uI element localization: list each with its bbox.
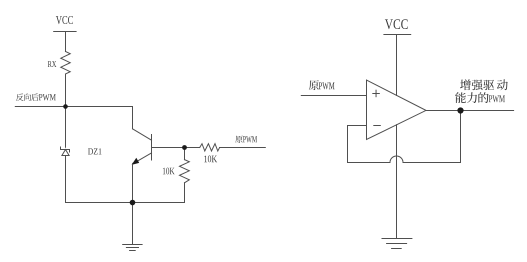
- wire output node down to feedback: [460, 111, 462, 163]
- wire RX bottom to node A: [65, 74, 67, 107]
- transistor Q1: emitter diagonal: [133, 153, 151, 164]
- wire emitter down to ground rail: [132, 163, 134, 202]
- wire output stub to 反向后PWM terminal: [15, 106, 65, 108]
- label 10K (series resistor): [204, 156, 217, 163]
- node A junction dot: [63, 104, 68, 109]
- label 反向后PWM: [16, 93, 56, 101]
- wire corner down to transistor collector: [132, 107, 134, 129]
- transistor Q1: emitter arrowhead: [132, 158, 140, 165]
- power symbol VCC (left): bar: [54, 31, 76, 33]
- wire DZ1 anode to ground rail: [65, 156, 67, 203]
- op-amp U1 pin + (non-inverting input) mark: [373, 90, 380, 97]
- label VCC (right): [385, 19, 408, 29]
- label VCC (left): [56, 16, 73, 24]
- wire VCC bar to op-amp V+ pin: [396, 35, 398, 96]
- wire ground rail (bottom horizontal): [66, 202, 185, 204]
- resistor 10K series (horizontal zigzag): [200, 144, 220, 151]
- wire feedback up to - input: [348, 126, 367, 163]
- label 10K (pulldown resistor): [163, 168, 175, 175]
- wire node A to collector corner: [66, 106, 133, 108]
- ground symbol (left): [123, 245, 142, 251]
- wire op-amp output to terminal: [426, 110, 514, 112]
- label 原PWM (right input): [309, 80, 335, 90]
- wire node A down to zener DZ1: [65, 107, 67, 148]
- label DZ1: [88, 148, 101, 154]
- label 原PWM (left output terminal): [235, 136, 257, 143]
- label RX: [48, 61, 56, 67]
- op-amp U1 triangle: [367, 80, 427, 139]
- node D output junction dot: [457, 107, 463, 113]
- wire op-amp V- pin to ground: [396, 125, 398, 239]
- wire node B to series resistor: [185, 147, 200, 149]
- wire 原PWM input to + input: [301, 95, 366, 97]
- transistor Q1 NPN: base bar: [151, 135, 153, 161]
- transistor Q1: collector diagonal: [133, 129, 152, 140]
- op-amp U1 pin - (inverting input) mark: [374, 125, 381, 127]
- wire 10K pulldown to ground rail: [184, 183, 186, 203]
- node C junction dot: [130, 200, 136, 206]
- resistor 10K pulldown (vertical zigzag): [180, 160, 190, 183]
- wire feedback bottom with hop over ground stem: [348, 156, 461, 163]
- node B junction dot: [182, 145, 187, 150]
- wire base to node B: [152, 147, 185, 149]
- wire series resistor to 原PWM terminal: [220, 147, 266, 149]
- wire VCC bar to resistor RX: [65, 32, 67, 52]
- label 能力的PWM (output label line 2): [455, 92, 505, 103]
- zener diode DZ1: cathode bar with bent ends: [61, 147, 70, 152]
- ground symbol (right): [382, 239, 412, 249]
- power symbol VCC (right): bar: [384, 34, 411, 36]
- wire node C to ground symbol: [132, 203, 134, 245]
- label 增强驱动 (output label line 1): [460, 79, 508, 90]
- zener diode DZ1: anode triangle: [62, 150, 69, 156]
- resistor RX (vertical zigzag): [61, 52, 70, 75]
- wire node B to 10K pulldown: [184, 148, 186, 160]
